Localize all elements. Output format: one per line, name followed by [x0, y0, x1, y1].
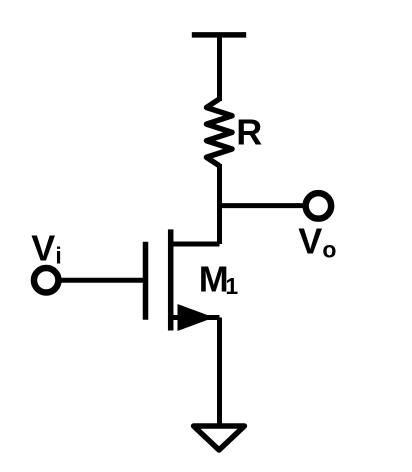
wire: source to ground — [217, 318, 222, 425]
wire: output node to Vo terminal — [220, 203, 307, 208]
terminal Vi — [34, 268, 59, 293]
transistor M1 gate bar — [143, 242, 149, 320]
svg-text:Vi: Vi — [31, 228, 61, 269]
svg-text:Vo: Vo — [298, 221, 336, 263]
wire: resistor bottom to drain (through output node) — [217, 164, 222, 244]
resistor R — [207, 99, 233, 166]
ground — [194, 426, 245, 450]
wire: gate from Vi terminal — [58, 278, 148, 283]
wire: rail to resistor top — [217, 35, 222, 101]
wire: drain horizontal — [169, 242, 220, 247]
source arrow (NMOS) — [178, 304, 215, 331]
svg-text:R: R — [236, 112, 262, 153]
transistor M1 channel bar — [168, 229, 174, 330]
svg-text:M1: M1 — [199, 259, 239, 300]
power rail VDD — [192, 32, 246, 38]
wire: source horizontal — [171, 315, 220, 320]
terminal Vo — [306, 193, 332, 219]
